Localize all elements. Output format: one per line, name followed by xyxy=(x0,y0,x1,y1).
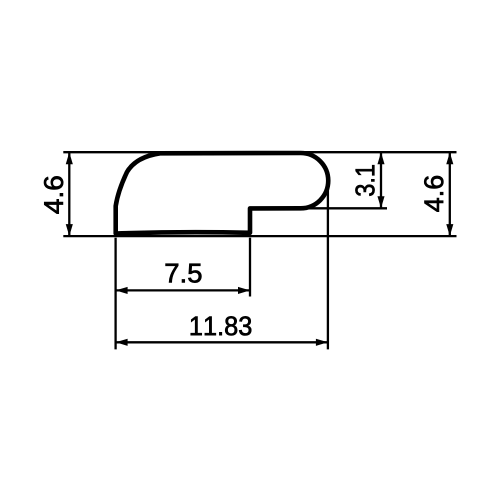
extension line bottom xyxy=(63,235,456,237)
dimension 11.83: arrow right xyxy=(316,339,328,346)
dimension 4.6 right: label xyxy=(424,176,443,212)
dimension 4.6 left: arrow up xyxy=(66,152,73,164)
dimension 4.6 right: arrow down xyxy=(446,224,453,236)
dimension 3.1: arrow up xyxy=(377,152,384,164)
dimension 3.1: line xyxy=(380,152,382,208)
dimension 4.6 right: line xyxy=(449,152,451,236)
dimension 7.5: line xyxy=(116,289,250,291)
dimension 7.5: label xyxy=(166,264,202,283)
dimension 7.5: arrow right xyxy=(238,287,250,294)
profile outline xyxy=(116,153,329,234)
dimension 4.6 right: arrow up xyxy=(446,152,453,164)
dimension 4.6 left: label xyxy=(44,176,63,213)
extension line top xyxy=(63,151,456,153)
dimension 3.1: arrow down xyxy=(377,196,384,208)
extension line mid vertical xyxy=(249,238,251,297)
dimension 4.6 left: arrow down xyxy=(66,224,73,236)
extension line left vertical xyxy=(114,238,116,350)
dimension 4.6 left: line xyxy=(68,152,70,236)
dimension 11.83: label xyxy=(191,316,251,335)
dimension 3.1: label xyxy=(355,165,374,196)
dimension 7.5: arrow left xyxy=(116,287,128,294)
extension line step xyxy=(300,207,387,209)
dimension 11.83: arrow left xyxy=(116,339,128,346)
dimension 11.83: line xyxy=(116,341,328,343)
extension line right vertical xyxy=(327,181,329,350)
